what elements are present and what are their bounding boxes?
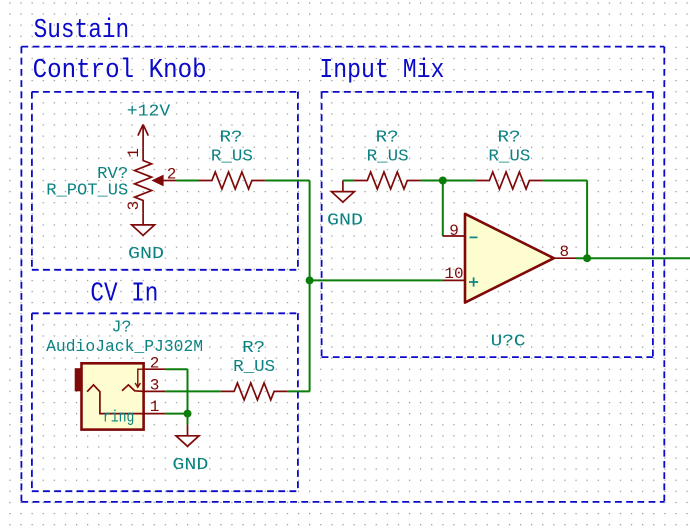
svg-text:Sustain: Sustain: [34, 16, 130, 46]
jack tip contact: [87, 385, 144, 414]
svg-text:1: 1: [150, 398, 160, 416]
wire junction down to pin9: [442, 181, 444, 237]
wire R1 to R2: [421, 180, 477, 182]
wire pin3 to resistor: [165, 390, 221, 392]
wire pin2 right: [165, 368, 187, 370]
op-amp U?C body: [465, 214, 554, 303]
wire vertical pin2 to pin1: [187, 369, 189, 413]
resistor R? (cv in): [221, 383, 288, 400]
junction pin1: [184, 410, 192, 418]
svg-text:R?: R?: [220, 127, 243, 146]
svg-text:GND: GND: [172, 455, 208, 474]
svg-text:R_POT_US: R_POT_US: [46, 181, 128, 200]
ground symbol (pot): [132, 214, 155, 236]
svg-text:2: 2: [167, 165, 177, 183]
svg-text:GND: GND: [327, 211, 363, 230]
wire pin1 right: [165, 413, 187, 415]
svg-text:R_US: R_US: [488, 146, 530, 165]
svg-text:CV In: CV In: [90, 279, 158, 309]
jack pin 2: [144, 368, 166, 370]
svg-text:3: 3: [150, 376, 160, 394]
wire pot pin2 to R: [176, 180, 198, 182]
audio jack J? body: [82, 363, 144, 429]
svg-text:R_US: R_US: [367, 146, 409, 165]
wire resistor to vertical: [287, 390, 309, 392]
resistor R2: [476, 172, 543, 189]
junction at CV row: [306, 276, 314, 284]
wire R to vertical: [265, 180, 309, 182]
jack ring contact: [122, 385, 144, 392]
potentiometer RV? body: [135, 147, 152, 214]
resistor R1: [354, 172, 421, 189]
jack switch arrow: [135, 369, 143, 387]
svg-text:1: 1: [125, 148, 143, 158]
svg-text:10: 10: [444, 265, 463, 283]
svg-text:R?: R?: [376, 127, 399, 146]
feedback vertical wire: [586, 181, 588, 259]
svg-text:R_US: R_US: [211, 146, 253, 165]
wire junction to gnd: [187, 414, 189, 425]
svg-text:R?: R?: [498, 127, 521, 146]
svg-text:+12V: +12V: [127, 101, 171, 120]
junction main: [439, 177, 447, 185]
jack pin 3: [144, 390, 166, 392]
output wire: [576, 257, 690, 259]
svg-text:GND: GND: [128, 244, 164, 263]
Control Knob dashed box: [32, 92, 298, 270]
plus sign: [469, 277, 478, 286]
output junction: [583, 254, 591, 262]
svg-text:R_US: R_US: [233, 357, 275, 376]
svg-text:8: 8: [559, 243, 569, 261]
op-amp pin 10: [443, 279, 465, 281]
svg-text:R?: R?: [242, 338, 265, 357]
wire junction to opamp pin10: [310, 279, 443, 281]
op-amp pin 8: [554, 257, 576, 259]
Input Mix dashed box: [322, 92, 653, 357]
svg-text:2: 2: [150, 355, 160, 373]
resistor R? (control knob): [199, 172, 266, 189]
CV In dashed box: [32, 313, 298, 491]
svg-text:Input Mix: Input Mix: [319, 56, 444, 86]
minus sign: [470, 236, 478, 238]
power +12V symbol: [138, 125, 148, 148]
svg-text:9: 9: [449, 222, 459, 240]
potentiometer wiper arrow pin 2: [153, 175, 177, 185]
svg-text:ring: ring: [103, 408, 135, 427]
ground symbol (input mix): [331, 181, 354, 203]
svg-text:AudioJack_PJ302M: AudioJack_PJ302M: [46, 337, 203, 356]
svg-text:Control Knob: Control Knob: [33, 56, 207, 86]
svg-text:U?C: U?C: [491, 331, 526, 350]
svg-text:3: 3: [125, 201, 143, 211]
jack sleeve tab: [75, 369, 82, 391]
op-amp pin 9: [443, 235, 465, 237]
svg-text:J?: J?: [112, 317, 132, 336]
long vertical wire: [309, 181, 311, 392]
ground symbol (jack): [176, 425, 199, 447]
wire gnd to R1: [343, 180, 354, 182]
jack pin 1: [144, 413, 166, 415]
wire R2 to feedback corner: [543, 180, 587, 182]
